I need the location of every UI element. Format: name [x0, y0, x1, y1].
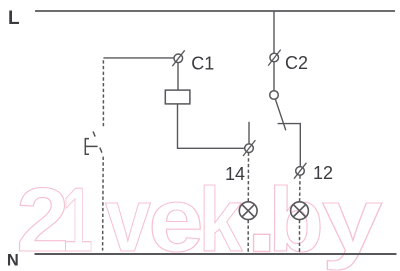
svg-text:14: 14: [225, 164, 245, 184]
terminal C1: [172, 50, 184, 66]
svg-text:y: y: [322, 170, 383, 271]
watermark 21vek.by: [16, 148, 382, 271]
svg-text:12: 12: [313, 163, 333, 183]
svg-text:2: 2: [16, 169, 69, 270]
terminal C2: [268, 50, 281, 66]
lamp HL1: [239, 202, 257, 220]
lamp HL2: [291, 202, 309, 220]
wire dashed lower segment of push-button branch to N: [102, 157, 105, 251]
svg-text:b: b: [268, 170, 324, 271]
wire dashed lamp1 to N: [247, 220, 249, 253]
svg-text:1: 1: [62, 169, 92, 271]
push-button blade (dashed): [92, 129, 105, 159]
contact pivot circle: [270, 91, 279, 100]
svg-text:v: v: [105, 169, 151, 271]
relay coil K1: [165, 90, 190, 104]
svg-text:k: k: [199, 170, 243, 271]
wire C2 to pivot: [273, 62, 275, 91]
wire dashed lamp2 to N: [299, 220, 301, 253]
svg-text:C2: C2: [285, 53, 308, 73]
push-button actuator SB1: [85, 139, 97, 155]
svg-text:C1: C1: [191, 54, 214, 74]
wire dashed upper segment of push-button branch: [102, 58, 104, 129]
terminal 14: [243, 140, 255, 156]
wire dashed 14 to lamp1: [247, 153, 249, 202]
wire dashed 12 to lamp2: [299, 175, 301, 201]
contact stub above terminal 14: [248, 122, 250, 144]
contact blade: [275, 99, 285, 130]
wire C1 to coil: [177, 63, 179, 91]
wire push-button branch to C1: [103, 57, 174, 59]
svg-text:e: e: [148, 170, 203, 271]
svg-text:L: L: [8, 8, 20, 29]
wire coil down and right to terminal 14: [178, 104, 245, 148]
svg-text:N: N: [7, 251, 19, 269]
wire contact to terminal 12: [278, 124, 301, 167]
terminal 12: [294, 163, 306, 179]
wire N rail: [35, 253, 397, 255]
wire L rail: [35, 10, 395, 12]
wire from L rail down to C2: [273, 11, 275, 53]
